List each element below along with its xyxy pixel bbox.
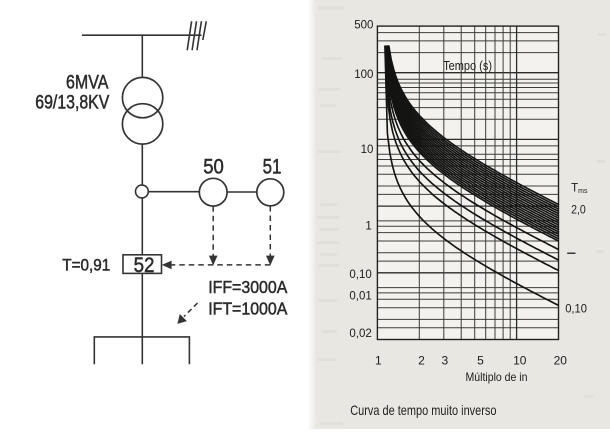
svg-text:500: 500 [354,19,373,31]
svg-text:3: 3 [441,354,448,368]
transformer 6MVA 69/13,8kV primary winding [122,77,162,117]
chart minor vertical gridlines [419,26,510,339]
dashed trip signal from relay 50 [212,206,214,256]
transformer secondary winding [122,104,162,144]
relay 51 [257,179,284,206]
chart minor horizontal gridlines [377,33,558,328]
svg-text:T=0,91: T=0,91 [62,256,110,274]
CT node circle [136,185,149,198]
svg-text:10: 10 [361,144,374,156]
svg-text:Curva de tempo muito inverso: Curva de tempo muito inverso [350,403,497,418]
arrowhead down at relay 50 dashed line [209,256,218,266]
svg-text:20: 20 [554,354,568,368]
svg-text:6MVA: 6MVA [66,73,109,94]
svg-text:0,01: 0,01 [349,291,371,303]
svg-text:IFT=1000A: IFT=1000A [208,298,287,318]
wire: top bus to transformer [141,35,143,77]
breaker 52 box [123,255,162,274]
chart frame [377,26,558,339]
svg-text:50: 50 [203,155,224,178]
arrowhead down at relay 51 dashed line [266,256,275,266]
solid merged top of curve family [385,46,404,96]
load feeder center line [141,337,143,364]
svg-text:0,02: 0,02 [349,328,371,340]
svg-text:1: 1 [365,220,371,232]
chart plot area background [377,26,558,339]
svg-text:100: 100 [354,69,373,81]
svg-text:2: 2 [418,354,425,368]
wire: transformer to CT node [141,144,143,185]
wire: CT node to breaker 52 [141,198,143,255]
svg-text:10: 10 [513,354,527,368]
svg-text:Múltiplo de in: Múltiplo de in [466,370,528,384]
relay 50 [199,178,227,206]
wire: relay 50 to relay 51 [227,191,257,193]
load bus bar [94,337,189,364]
utility source hatch symbol [187,21,206,50]
wire: breaker 52 to load bus [141,273,143,337]
svg-text:Tempo (s): Tempo (s) [443,58,492,73]
chart major horizontal gridlines [377,73,558,273]
chart major vertical gridline x=10 [516,26,518,339]
svg-text:52: 52 [134,254,155,277]
wire: CT node to relay 50 [148,191,199,193]
wire: incoming bus at top [82,34,202,36]
faint scan ghost marks in left margin of panel [317,6,606,425]
svg-text:69/13,8KV: 69/13,8KV [35,93,109,114]
svg-text:0,10: 0,10 [565,302,587,316]
svg-text:5: 5 [477,354,484,368]
right tick dash [567,252,575,254]
svg-text:2,0: 2,0 [571,202,586,216]
dashed trip signal from relay 51 [269,206,271,256]
svg-text:0,10: 0,10 [349,269,371,281]
svg-text:IFF=3000A: IFF=3000A [208,277,287,297]
arrowhead of fault pointer [177,314,187,324]
svg-text:51: 51 [263,155,282,178]
dashed trip wire to breaker 52 [172,264,271,266]
svg-text:1: 1 [375,354,382,368]
arrowhead left at breaker 52 [162,261,172,270]
dashed fault pointer arrow [184,303,198,317]
